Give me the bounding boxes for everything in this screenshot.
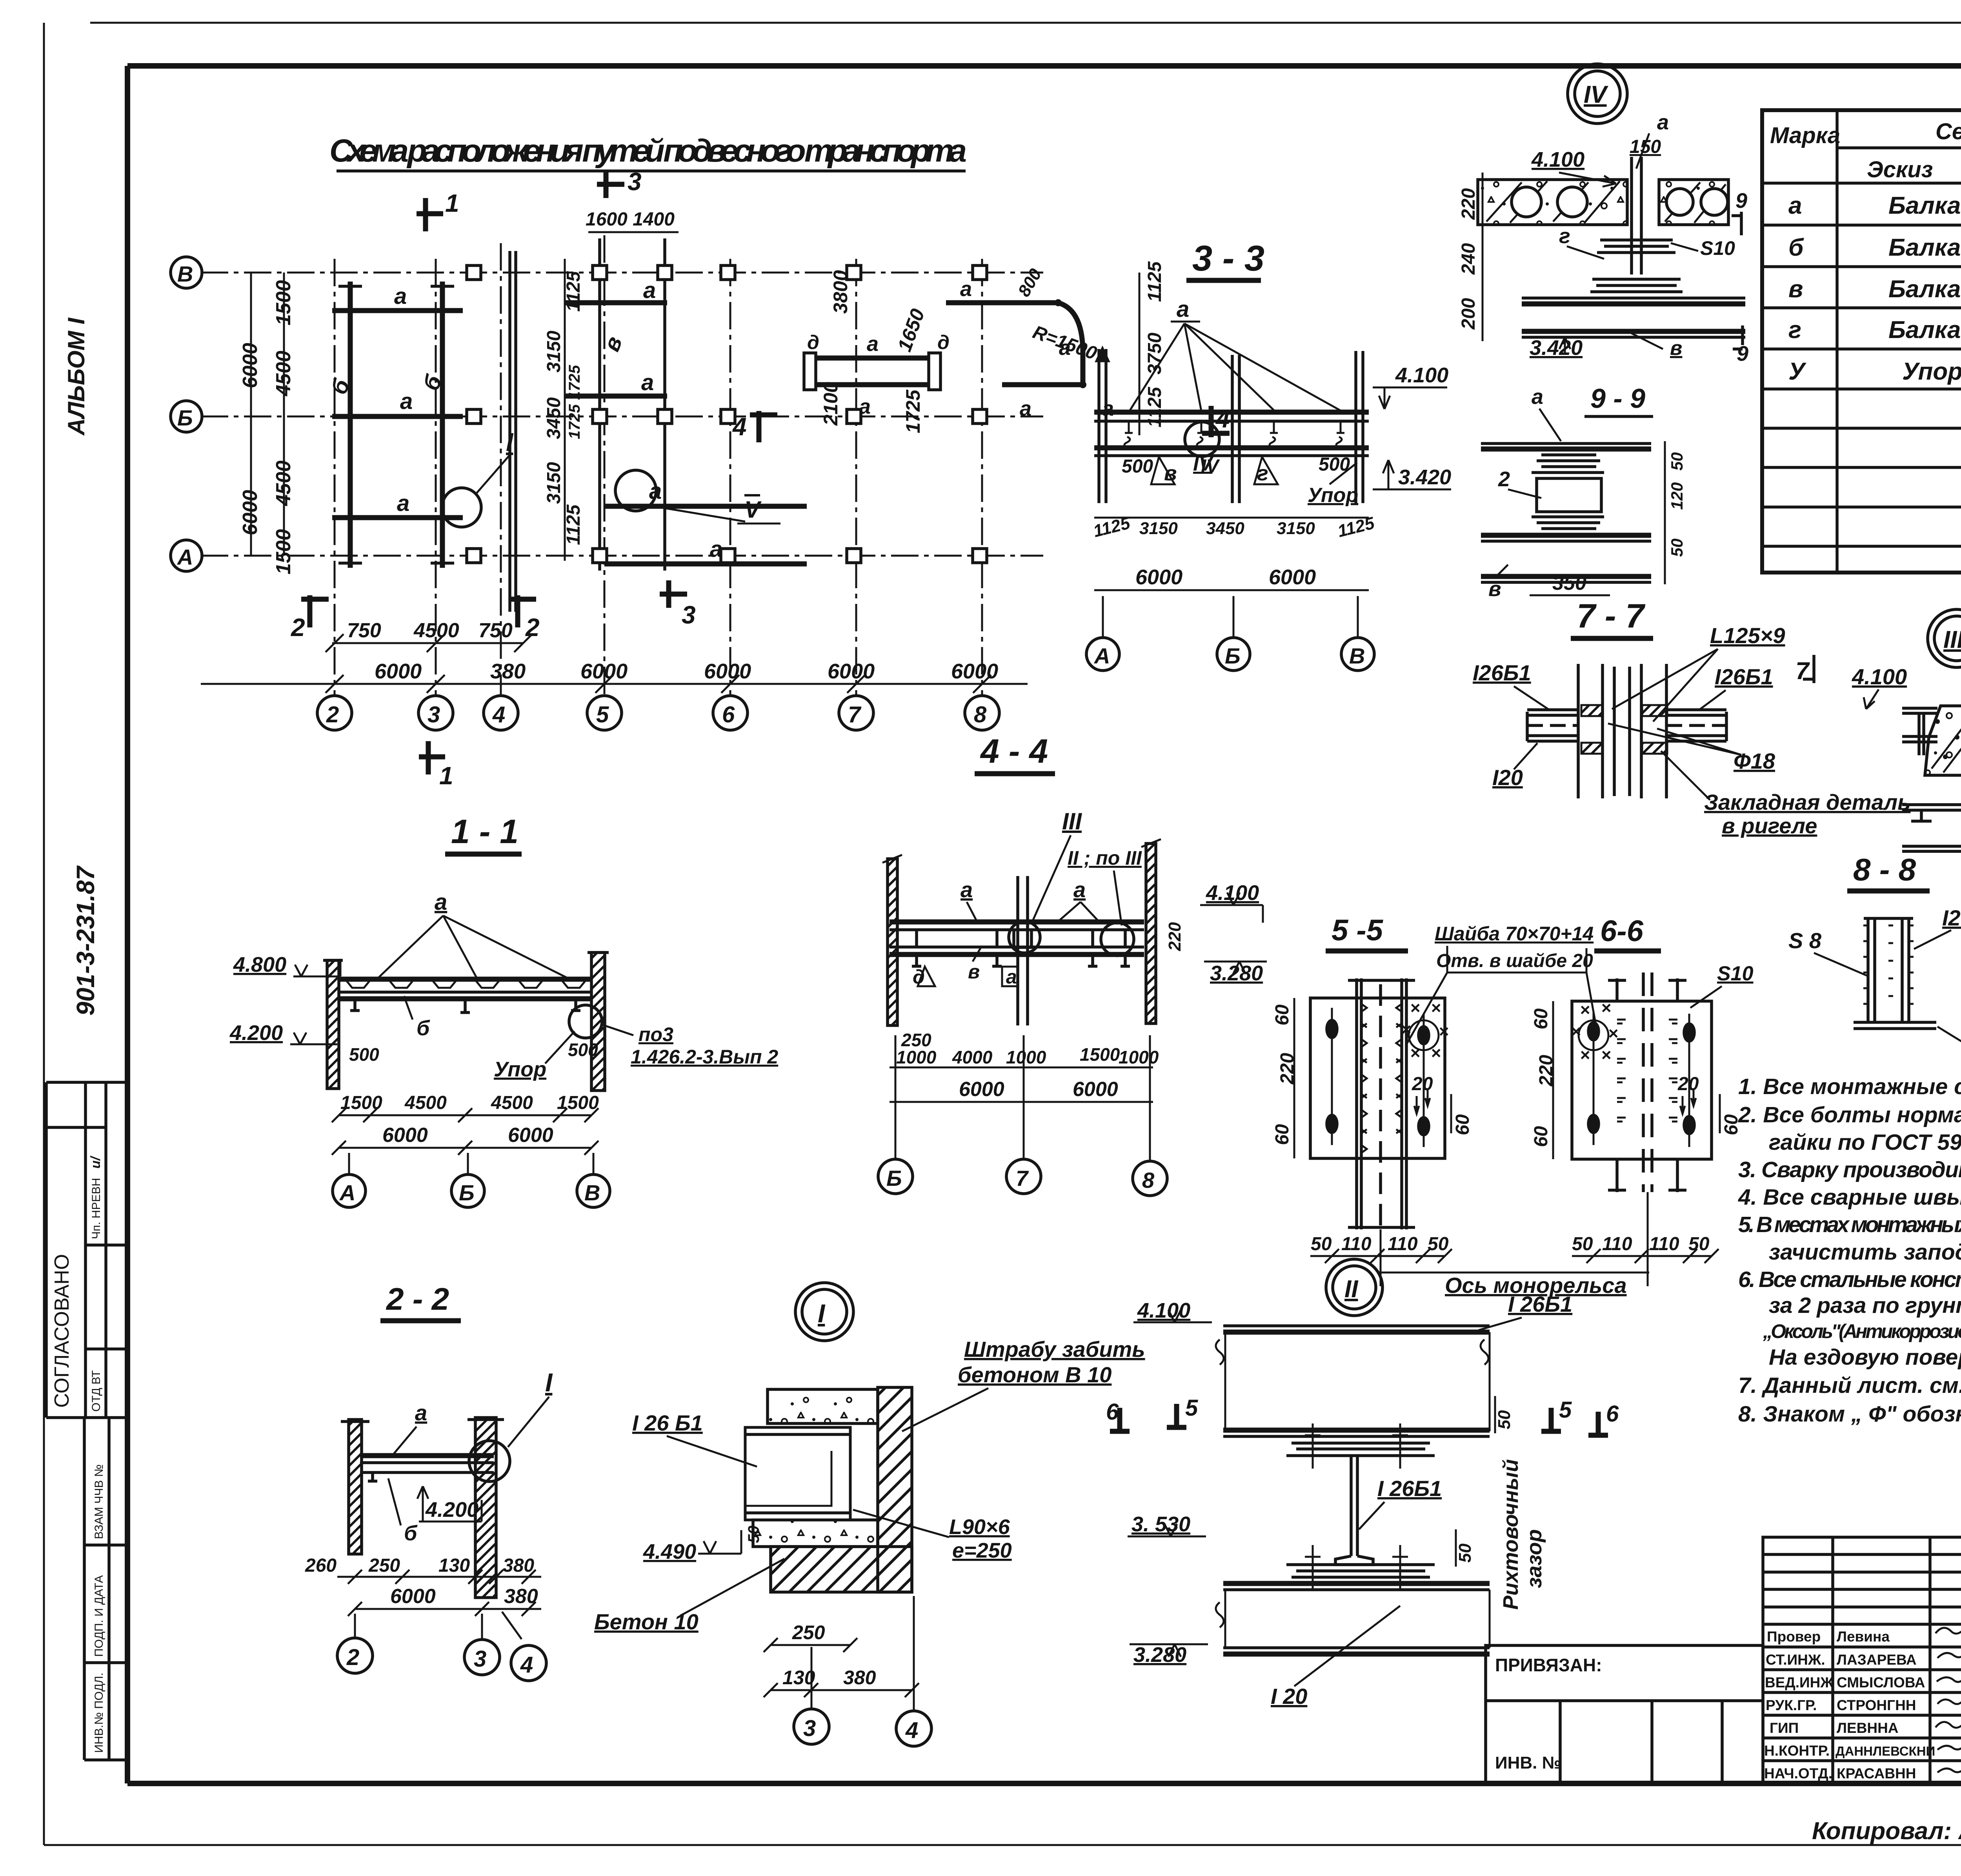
svg-text:1125: 1125	[563, 271, 584, 312]
svg-text:НАЧ.ОТД.: НАЧ.ОТД.	[1764, 1765, 1832, 1781]
bolts 6-6	[1588, 1023, 1599, 1040]
svg-text:а: а	[641, 370, 654, 395]
svg-text:б: б	[417, 1016, 430, 1040]
axis circles	[895, 1035, 897, 1159]
svg-text:20: 20	[1677, 1074, 1699, 1094]
svg-text:АЛЬБОМ I: АЛЬБОМ I	[63, 317, 89, 436]
svg-text:г: г	[1788, 316, 1801, 344]
svg-text:ОТД ВТ: ОТД ВТ	[90, 1370, 103, 1412]
beam	[360, 1453, 494, 1458]
svg-text:240: 240	[1458, 243, 1479, 275]
svg-text:3150: 3150	[1277, 519, 1315, 538]
5-5 plate	[1310, 998, 1445, 1158]
svg-text:I 26 Б1: I 26 Б1	[632, 1411, 703, 1435]
ground hatch below	[771, 1547, 912, 1592]
bottom dims	[1094, 517, 1369, 519]
svg-text:IV: IV	[1201, 456, 1220, 477]
svg-text:а: а	[1532, 385, 1543, 409]
svg-text:1.426.2-3.Вып 2: 1.426.2-3.Вып 2	[631, 1046, 778, 1068]
svg-text:ДАННЛЕВСКНИ: ДАННЛЕВСКНИ	[1835, 1744, 1935, 1758]
axis circles	[354, 1614, 356, 1638]
svg-text:3: 3	[474, 1646, 486, 1672]
svg-text:б: б	[404, 1522, 418, 1545]
svg-text:L125×9: L125×9	[1710, 623, 1785, 648]
top dims 1600 1400	[588, 231, 679, 233]
svg-text:7. Данный лист. см. совместно: 7. Данный лист. см. совместно с листом К…	[1738, 1373, 1961, 1398]
svg-text:III: III	[1943, 626, 1961, 653]
svg-text:2: 2	[326, 702, 339, 727]
slab deck	[339, 977, 591, 982]
top beam	[1223, 1324, 1490, 1327]
svg-text:S 8: S 8	[1788, 928, 1822, 953]
svg-text:20: 20	[1412, 1074, 1433, 1094]
monorail curve top right	[946, 300, 1058, 305]
floor line	[1902, 845, 1961, 848]
svg-text:7: 7	[848, 702, 862, 727]
concrete wedge	[1925, 706, 1961, 775]
svg-text:8. Знаком „ Ф" обозначены мес: 8. Знаком „ Ф" обозначены места креплени…	[1738, 1402, 1961, 1427]
svg-text:6000: 6000	[1269, 565, 1316, 589]
svg-text:а: а	[1177, 296, 1189, 322]
svg-text:4.200: 4.200	[425, 1498, 478, 1522]
dims	[339, 1114, 591, 1116]
svg-text:зачистить заподлицо с основным: зачистить заподлицо с основным металлом.	[1769, 1240, 1961, 1265]
svg-text:а: а	[435, 889, 447, 915]
svg-text:4.200: 4.200	[229, 1021, 283, 1045]
notes list	[1738, 1074, 1961, 1427]
svg-text:в: в	[1788, 276, 1803, 303]
svg-text:1725: 1725	[902, 389, 924, 433]
svg-text:3750: 3750	[1144, 333, 1165, 374]
svg-text:а: а	[643, 278, 656, 303]
svg-text:б: б	[1788, 234, 1804, 261]
svg-text:6000: 6000	[1135, 565, 1182, 589]
svg-text:ЛЕВННА: ЛЕВННА	[1837, 1720, 1899, 1736]
embedded plates	[1581, 705, 1603, 716]
svg-text:в ригеле: в ригеле	[1722, 813, 1817, 838]
svg-text:Схема расположения путей подве: Схема расположения путей подвесного тран…	[329, 133, 967, 169]
os monorelsa	[1378, 1272, 1649, 1274]
beam box	[745, 1427, 850, 1520]
walls	[327, 960, 339, 1089]
svg-text:750: 750	[347, 619, 381, 642]
svg-text:130: 130	[782, 1667, 815, 1689]
privyazan box	[1486, 1645, 1763, 1783]
svg-text:110: 110	[1388, 1234, 1418, 1254]
svg-text:У: У	[1788, 358, 1806, 385]
svg-text:Сечение: Сечение	[1936, 119, 1961, 144]
svg-text:8: 8	[974, 702, 987, 727]
I detail circle and label	[442, 488, 481, 527]
svg-text:4. Все сварные швы- катет шваh: 4. Все сварные швы- катет шваh=6 мм.	[1738, 1185, 1961, 1210]
svg-text:6000: 6000	[704, 660, 751, 683]
svg-text:II: II	[1344, 1276, 1359, 1303]
columns	[349, 1420, 362, 1554]
svg-text:6000: 6000	[239, 490, 262, 535]
svg-text:60: 60	[1272, 1124, 1293, 1145]
svg-text:260: 260	[305, 1555, 337, 1576]
svg-text:Эскиз: Эскиз	[1867, 157, 1933, 182]
section 1-1	[229, 813, 778, 1207]
svg-text:I 26Б1: I 26Б1	[1508, 1292, 1572, 1316]
svg-text:IV: IV	[1584, 81, 1608, 108]
svg-text:8 - 8: 8 - 8	[1853, 852, 1916, 887]
title block bottom right	[1486, 1535, 1961, 1783]
svg-text:9: 9	[1735, 189, 1747, 213]
svg-text:в: в	[968, 961, 980, 983]
svg-text:а: а	[1657, 111, 1669, 134]
section 2-2	[305, 1282, 553, 1681]
svg-text:Б: Б	[886, 1166, 902, 1191]
svg-text:3: 3	[427, 702, 440, 727]
svg-text:Закладная деталь: Закладная деталь	[1704, 790, 1910, 814]
svg-text:Б: Б	[459, 1180, 475, 1205]
svg-text:200: 200	[1458, 298, 1479, 330]
top beam lines	[1902, 707, 1937, 710]
svg-text:750: 750	[478, 619, 513, 642]
section 4-4	[878, 733, 1267, 1196]
svg-text:гайки по ГОСТ 5915-70*.: гайки по ГОСТ 5915-70*.	[1769, 1130, 1961, 1155]
columns	[1097, 349, 1363, 503]
svg-text:Левина: Левина	[1837, 1629, 1890, 1645]
svg-text:РУК.ГР.: РУК.ГР.	[1766, 1697, 1817, 1713]
axis circles	[1086, 638, 1119, 671]
svg-text:3 - 3: 3 - 3	[1192, 238, 1264, 278]
right wall hatched	[878, 1387, 912, 1592]
svg-text:60: 60	[1531, 1126, 1552, 1147]
svg-text:I26Б1: I26Б1	[1942, 905, 1961, 930]
svg-text:6: 6	[722, 702, 735, 727]
svg-text:380: 380	[503, 1555, 534, 1576]
svg-text:6000: 6000	[239, 343, 262, 388]
I section	[1854, 918, 1936, 1029]
squares row V	[467, 265, 987, 563]
svg-text:ПРИВЯЗАН:: ПРИВЯЗАН:	[1495, 1655, 1602, 1675]
svg-text:ИНВ.№ ПОДЛ.: ИНВ.№ ПОДЛ.	[93, 1672, 106, 1753]
svg-text:Балка I: Балка I	[1888, 192, 1961, 219]
weld x cluster	[1401, 998, 1449, 1063]
svg-text:220: 220	[1277, 1053, 1298, 1085]
dims	[337, 1576, 541, 1578]
wall double line at col 4	[508, 251, 511, 612]
svg-text:3150: 3150	[1139, 519, 1178, 538]
hangers + monorail I marks	[917, 930, 1125, 947]
svg-text:V: V	[744, 496, 762, 523]
svg-text:5. В местах монтажных стыков м: 5. В местах монтажных стыков монорельса …	[1738, 1212, 1961, 1237]
svg-text:II ; по III: II ; по III	[1068, 847, 1142, 869]
svg-text:Б: Б	[177, 405, 193, 430]
svg-text:Упор: Упор	[1308, 484, 1358, 507]
svg-text:1125: 1125	[563, 504, 584, 545]
svg-text:а: а	[960, 877, 973, 902]
svg-text:2: 2	[1498, 467, 1510, 491]
col axis circles	[317, 696, 352, 730]
svg-text:А: А	[176, 545, 193, 569]
svg-text:Штрабу забить: Штрабу забить	[964, 1337, 1145, 1362]
svg-text:4: 4	[905, 1718, 918, 1743]
bottom dims 5-5	[1310, 1255, 1445, 1257]
svg-text:220: 220	[1536, 1055, 1557, 1087]
svg-text:6000: 6000	[959, 1078, 1004, 1101]
svg-text:220: 220	[1165, 922, 1184, 951]
svg-text:В: В	[584, 1180, 600, 1205]
svg-text:Марка: Марка	[1770, 123, 1840, 148]
svg-text:4500: 4500	[272, 351, 295, 396]
washer stacks	[1590, 240, 1683, 292]
svg-text:2: 2	[525, 613, 540, 642]
svg-text:×: ×	[1439, 1022, 1449, 1041]
bottom dims 6-6	[1572, 1255, 1712, 1257]
svg-text:380: 380	[490, 660, 526, 683]
svg-text:ГИП: ГИП	[1770, 1720, 1799, 1736]
svg-text:×: ×	[1431, 998, 1441, 1018]
svg-text:I20: I20	[1492, 765, 1523, 790]
svg-text:4500: 4500	[413, 619, 459, 642]
svg-text:S10: S10	[1717, 962, 1754, 985]
svg-text:ИНВ. №: ИНВ. №	[1495, 1753, 1561, 1772]
detail II beam splice	[1106, 1259, 1619, 1709]
svg-text:4: 4	[732, 413, 747, 441]
slab with voids	[1478, 180, 1627, 225]
svg-text:6000: 6000	[580, 660, 628, 683]
svg-text:60: 60	[1272, 1004, 1293, 1025]
IV detail circle	[1185, 422, 1219, 456]
bottom beam I20	[1223, 1646, 1490, 1649]
section 3-3	[1086, 238, 1451, 671]
svg-text:а: а	[960, 277, 972, 301]
svg-text:Ф18: Ф18	[1734, 749, 1775, 773]
svg-text:и/: и/	[88, 1155, 103, 1169]
svg-text:60: 60	[1531, 1008, 1552, 1029]
svg-text:1500: 1500	[557, 1093, 599, 1113]
svg-text:Бетон 10: Бетон 10	[594, 1609, 699, 1634]
row axis circles	[171, 257, 202, 288]
svg-text:4.100: 4.100	[1531, 148, 1584, 171]
svg-text:5: 5	[596, 702, 609, 727]
svg-text:ЛАЗАРЕВА: ЛАЗАРЕВА	[1837, 1652, 1917, 1668]
table vedomost elementov	[1762, 75, 1961, 573]
left beam I20	[1527, 710, 1578, 741]
svg-text:S10: S10	[1700, 237, 1735, 259]
lower beam	[1223, 1581, 1490, 1586]
left dims 6-6	[1552, 1001, 1554, 1159]
svg-text:60: 60	[1452, 1114, 1473, 1135]
svg-text:1500: 1500	[1080, 1044, 1120, 1065]
svg-text:3.420: 3.420	[1530, 336, 1583, 360]
row axis lines	[201, 272, 1043, 274]
section 9-9	[1481, 383, 1686, 601]
dims	[890, 1067, 1153, 1069]
svg-text:6000: 6000	[1073, 1078, 1118, 1101]
svg-text:В: В	[1349, 644, 1365, 668]
washer stack	[1532, 455, 1604, 529]
svg-text:6. Все стальные конструкции ок: 6. Все стальные конструкции окрасить мас…	[1738, 1267, 1961, 1292]
svg-text:3450: 3450	[544, 397, 564, 439]
svg-text:1000: 1000	[1006, 1047, 1046, 1067]
svg-text:бетоном В 10: бетоном В 10	[958, 1362, 1111, 1387]
right block double beam	[809, 356, 935, 361]
svg-text:9 - 9: 9 - 9	[1590, 383, 1645, 414]
svg-text:3: 3	[628, 167, 642, 196]
svg-text:а: а	[397, 491, 409, 516]
svg-text:50: 50	[1455, 1543, 1475, 1563]
V detail circle	[615, 470, 656, 511]
svg-text:50: 50	[1311, 1234, 1332, 1254]
svg-text:а: а	[1073, 877, 1086, 902]
svg-text:I 20: I 20	[1271, 1684, 1307, 1709]
svg-text:а: а	[1102, 397, 1114, 420]
beams	[1094, 410, 1369, 415]
svg-text:по3: по3	[639, 1023, 673, 1045]
beam a horizontals left block	[332, 308, 463, 313]
svg-text:6-6: 6-6	[1600, 914, 1644, 948]
svg-text:6000: 6000	[375, 660, 422, 683]
signatures squiggles	[1936, 1626, 1961, 1772]
svg-text:150: 150	[1630, 136, 1661, 157]
svg-text:I: I	[545, 1368, 553, 1397]
svg-text:60: 60	[1721, 1114, 1742, 1135]
svg-text:e=250: e=250	[952, 1539, 1012, 1562]
svg-text:1125: 1125	[1144, 261, 1165, 302]
svg-text:5 -5: 5 -5	[1332, 914, 1384, 947]
signature table	[1763, 1537, 1961, 1783]
svg-text:5: 5	[1559, 1397, 1572, 1423]
svg-text:в: в	[1488, 577, 1501, 601]
detail I beam in wall niche	[594, 1283, 1145, 1746]
svg-text:50: 50	[1688, 1234, 1710, 1254]
svg-text:зазор: зазор	[1523, 1529, 1546, 1588]
weld x cluster 6-6	[1571, 998, 1618, 1065]
bolts through splice	[1305, 1423, 1408, 1590]
svg-text:2 - 2: 2 - 2	[386, 1282, 449, 1316]
svg-text:а: а	[1006, 966, 1017, 988]
svg-text:4.490: 4.490	[643, 1540, 696, 1563]
svg-text:250: 250	[792, 1622, 825, 1643]
left dims for 5-5	[1293, 998, 1295, 1158]
svg-text:Н.КОНТР.: Н.КОНТР.	[1764, 1743, 1830, 1759]
svg-text:за 2 раза по грунтовке из желе: за 2 раза по грунтовке из железного сури…	[1769, 1293, 1961, 1318]
svg-text:50: 50	[1572, 1234, 1593, 1254]
left vertical dims	[250, 273, 252, 556]
svg-text:50: 50	[745, 1526, 762, 1543]
bottom dims	[332, 642, 523, 644]
plan view: monorail layout	[171, 167, 1230, 790]
svg-text:7: 7	[1016, 1166, 1029, 1191]
lower left stamp table	[84, 1418, 127, 1760]
svg-text:6000: 6000	[951, 660, 998, 683]
svg-text:×: ×	[1601, 998, 1611, 1018]
sections 5-5 and 6-6	[1272, 914, 1754, 1298]
svg-text:4: 4	[520, 1652, 533, 1678]
svg-text:6000: 6000	[382, 1124, 428, 1147]
svg-text:Копировал: Алешикава: Копировал: Алешикава	[1812, 1818, 1961, 1845]
svg-text:350: 350	[1552, 572, 1586, 594]
svg-text:×: ×	[1580, 1000, 1590, 1020]
bolts	[1327, 1008, 1429, 1147]
svg-text:6000: 6000	[828, 660, 875, 683]
svg-text:50: 50	[1495, 1410, 1514, 1429]
svg-text:а: а	[415, 1400, 427, 1425]
svg-text:На ездовую поверхность краска: На ездовую поверхность краска не наносит…	[1769, 1345, 1961, 1370]
svg-text:4500: 4500	[272, 460, 295, 506]
svg-text:а: а	[1788, 192, 1802, 219]
svg-text:а: а	[867, 332, 879, 356]
column axis lines	[334, 259, 336, 695]
svg-text:а: а	[394, 284, 407, 309]
left dims	[1482, 173, 1484, 341]
svg-text:СТ.ИНЖ.: СТ.ИНЖ.	[1766, 1652, 1825, 1668]
detail III monorail below slab	[1902, 609, 1961, 887]
svg-text:а: а	[1020, 397, 1031, 420]
middle beam and splice	[1223, 1428, 1490, 1433]
svg-text:1000: 1000	[1119, 1047, 1159, 1067]
svg-text:Балка I: Балка I	[1888, 276, 1961, 303]
svg-text:2100: 2100	[820, 382, 842, 426]
webs	[1917, 713, 1921, 755]
lower splice stack	[1286, 1565, 1435, 1577]
detail circles	[1009, 922, 1040, 953]
svg-text:1500: 1500	[272, 280, 295, 325]
svg-text:500: 500	[349, 1044, 379, 1065]
svg-text:3.280: 3.280	[1133, 1643, 1186, 1667]
detail IV slab connection	[1458, 64, 1748, 365]
svg-text:I26Б1: I26Б1	[1473, 660, 1531, 685]
svg-text:в: в	[1670, 337, 1682, 360]
svg-text:3.420: 3.420	[1398, 465, 1451, 489]
svg-text:I: I	[818, 1299, 826, 1328]
svg-text:3. Сварку производить электрод: 3. Сварку производить электродами типа Э…	[1738, 1157, 1961, 1182]
svg-text:КРАСАВНН: КРАСАВНН	[1837, 1765, 1916, 1781]
section marks	[417, 198, 443, 231]
svg-text:3450: 3450	[1206, 519, 1244, 538]
svg-text:Упор: Упор	[1902, 358, 1961, 385]
svg-text:Провер: Провер	[1767, 1629, 1821, 1645]
svg-text:×: ×	[1608, 1024, 1618, 1043]
svg-text:9: 9	[1737, 342, 1748, 365]
monorail beam verticals near col5	[598, 238, 601, 571]
svg-text:4.100: 4.100	[1395, 364, 1448, 387]
svg-text:L90×6: L90×6	[949, 1515, 1010, 1539]
svg-text:ПОДП. И ДАТА: ПОДП. И ДАТА	[93, 1575, 106, 1657]
svg-text:Рихтовочный: Рихтовочный	[1499, 1459, 1523, 1610]
svg-text:СМЫСЛОВА: СМЫСЛОВА	[1837, 1674, 1925, 1691]
beams	[890, 920, 1144, 925]
ladder marks inside plate	[1617, 1020, 1677, 1122]
svg-text:1000: 1000	[896, 1047, 937, 1067]
svg-text:3: 3	[682, 601, 696, 629]
svg-text:220: 220	[1458, 188, 1479, 220]
columns	[1578, 664, 1666, 798]
svg-text:Упор: Упор	[494, 1058, 546, 1081]
svg-text:2: 2	[291, 613, 305, 642]
svg-text:110: 110	[1341, 1234, 1372, 1254]
svg-text:д: д	[937, 331, 950, 353]
svg-text:Балка I: Балка I	[1888, 316, 1961, 344]
svg-text:I 26Б1: I 26Б1	[1377, 1476, 1442, 1501]
svg-text:Б: Б	[1225, 644, 1241, 668]
right vertical dims	[1139, 273, 1141, 435]
svg-text:6: 6	[1106, 1399, 1119, 1425]
svg-text:4.100: 4.100	[1137, 1299, 1190, 1322]
svg-text:×: ×	[1410, 998, 1420, 1018]
svg-text:4 - 4: 4 - 4	[980, 733, 1048, 770]
svg-text:4: 4	[492, 702, 505, 727]
svg-text:50: 50	[1668, 538, 1686, 557]
svg-text:Балка I: Балка I	[1888, 234, 1961, 261]
svg-text:6: 6	[1606, 1401, 1619, 1427]
svg-text:130: 130	[438, 1555, 470, 1576]
svg-text:3. 530: 3. 530	[1131, 1512, 1190, 1536]
